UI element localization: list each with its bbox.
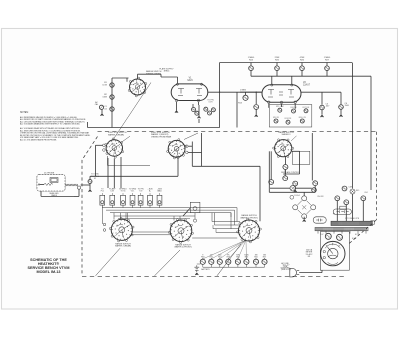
svg-text:3.3M: 3.3M [102, 96, 107, 98]
rotary switch range wafer mid [170, 220, 192, 242]
wire mid bus y127 [88, 127, 220, 129]
transformer jack box [190, 202, 200, 212]
resistor R42 [337, 234, 343, 240]
terminal TS6 [148, 195, 153, 205]
wire x312 vertical [311, 133, 313, 181]
wire lamp left [270, 187, 290, 189]
resistor R33 with ground [293, 181, 298, 186]
svg-text:V1: V1 [94, 178, 96, 180]
fold line A [96, 248, 121, 275]
wire SWA to SWB lower [131, 234, 171, 236]
fold line B [155, 250, 181, 276]
ground bridge [303, 217, 305, 220]
svg-text:ALL DC VOLTAGES TAKEN FROM: ALL DC VOLTAGES TAKEN FROM PROBE. [20, 138, 57, 141]
wire top B+ bus [220, 62, 353, 64]
svg-text:1 MEG: 1 MEG [240, 89, 247, 91]
bridge rectifier D1-D4 [302, 196, 307, 201]
capacitor C5 .047 [321, 92, 323, 104]
pilot lamp PL1 [290, 185, 296, 191]
electrolytic capacitor C10 [290, 268, 297, 277]
wire transformer feeds [336, 201, 338, 221]
label leader S1B [184, 133, 198, 140]
wire S3 right [292, 150, 300, 152]
pin 2 [175, 99, 178, 102]
rectifier circle B [344, 200, 349, 205]
potentiometer near bridge [290, 195, 294, 199]
wire V1 grid left [161, 76, 178, 78]
rotary switch S2 range wafer [130, 79, 146, 95]
wire battery link [197, 263, 201, 265]
wire SWC staircase 2 [215, 224, 240, 226]
capacitor C6 1500 [340, 92, 342, 104]
wire bus to SWA 3 [127, 213, 129, 222]
wire strip left down [101, 205, 103, 224]
svg-text:WAFER 2 (FRONT): WAFER 2 (FRONT) [174, 246, 192, 249]
wire SWC staircase 1 [212, 221, 240, 223]
wire top bus left drop [219, 63, 221, 128]
fuse F1 holder [313, 217, 326, 223]
wire plug cord to meter box [299, 272, 322, 274]
wire stub x199 down [198, 119, 200, 123]
svg-text:(RED): (RED) [164, 71, 170, 73]
svg-text:ALL VOLTAGES MEASURED WITH: ALL VOLTAGES MEASURED WITH RESPECT TO CH… [20, 123, 81, 126]
ground left chain [101, 109, 103, 113]
probe assembly dashed enclosure [37, 175, 65, 192]
terminal TS5 [138, 195, 143, 205]
wire S1A bottom drop [107, 158, 109, 188]
terminal TS1 [100, 195, 105, 205]
wire B+ vertical right x371 [370, 76, 372, 190]
terminal circles S1B right [186, 145, 189, 148]
terminal circles SWA left [103, 223, 106, 226]
wire bus to SWA [113, 213, 115, 220]
pin 7 [200, 83, 202, 85]
wire second bus y76 [251, 75, 371, 77]
svg-text:12AU7: 12AU7 [303, 84, 311, 87]
wire strip bus 1 [102, 207, 237, 209]
wire input up [89, 176, 91, 179]
transformer T1 primary winding [331, 221, 373, 225]
wire S1A bottom bus [108, 165, 151, 167]
wire probe bus to S1B [90, 175, 178, 177]
svg-text:7 V2: 7 V2 [139, 191, 143, 193]
resistor R31 [269, 180, 274, 185]
svg-text:6AL5: 6AL5 [187, 79, 193, 82]
label leader S3 [291, 136, 297, 141]
shield box upper right [292, 151, 310, 164]
wire bridge top [303, 192, 305, 195]
resistor R37 [312, 188, 317, 193]
potentiometer R13 DC BAL [240, 91, 262, 93]
resistor R34 [313, 181, 318, 186]
svg-text:R45: R45 [356, 190, 359, 192]
wire S1B to right [188, 151, 201, 153]
wire left chain vertical [111, 78, 113, 120]
ground probe input [89, 184, 91, 190]
wire S1A left links [96, 144, 103, 146]
terminal TS3 [121, 195, 126, 205]
wire S1B bottom drop [177, 159, 179, 177]
svg-text:(SEE NOTE): (SEE NOTE) [281, 269, 291, 271]
shielded cable [65, 184, 78, 186]
pin 1 [176, 83, 178, 85]
svg-text:D1-D4: D1-D4 [294, 195, 299, 197]
wire x201 down [201, 133, 203, 166]
wire probe tip [40, 184, 45, 186]
rotary switch S1A function rear wafer [106, 140, 122, 156]
meter M1 [321, 241, 345, 265]
wire SWA to SWB upper [132, 231, 171, 233]
resistor R38 [342, 186, 347, 191]
pin 8 [280, 101, 283, 104]
svg-text:BATTERY: BATTERY [201, 268, 210, 271]
svg-text:6 V3: 6 V3 [209, 102, 213, 104]
svg-text:CAL: CAL [95, 103, 99, 106]
svg-text:VIEWED FROM REAR: VIEWED FROM REAR [151, 135, 172, 138]
svg-text:ZERO ADJ CONTROL: ZERO ADJ CONTROL [281, 171, 300, 174]
svg-text:V2 1: V2 1 [131, 191, 135, 193]
meter terminals [323, 250, 325, 252]
meter enclosure box [320, 232, 349, 271]
terminal TS7 [157, 195, 162, 205]
pin 3 [268, 101, 271, 104]
wire y216 horizontal [114, 215, 195, 217]
rotary switch S1 range rear wafer [111, 219, 132, 240]
wire SWB to SWC [192, 237, 237, 239]
wire chain top link [112, 77, 129, 79]
pin 5 [197, 99, 200, 102]
wire S2 to V1 [137, 74, 139, 79]
wire V2 plate drops [271, 76, 273, 84]
wire V1 plate to V2 grid [208, 91, 262, 93]
svg-text:10 M: 10 M [102, 84, 107, 86]
resistor R4 input [88, 180, 92, 184]
wire fan from SWC [203, 240, 246, 259]
component cluster box below V2 [269, 105, 312, 127]
wire chain bottom [111, 120, 113, 128]
wire V2 cathode drops [268, 104, 270, 108]
svg-text:6.3 V: 6.3 V [352, 238, 357, 240]
label leader S1A [121, 136, 130, 142]
tube V1 6AL5 [171, 84, 208, 101]
wire x237 drop [236, 92, 238, 127]
resistor R41 [325, 233, 331, 239]
wire resistor row bus [203, 266, 265, 268]
wire S1B upper right [188, 145, 192, 147]
wire y166 right [192, 165, 260, 167]
wire y218.6 horizontal [118, 218, 190, 220]
wire x260 down [259, 166, 261, 221]
wire strip bus 3 [110, 212, 231, 214]
potentiometer R30 zero adj [284, 157, 286, 165]
wire to SWB [173, 216, 175, 221]
wire S3 pot down [284, 170, 286, 175]
svg-text:WAFER 2 (REAR): WAFER 2 (REAR) [115, 245, 131, 248]
svg-text:B+: B+ [149, 191, 151, 193]
svg-text:DC PROBE: DC PROBE [44, 172, 55, 174]
wire lower S3 links [268, 151, 270, 192]
wire probe into chassis [81, 184, 90, 186]
svg-text:PL1: PL1 [101, 191, 104, 193]
capacitor C2 cluster below V1 [198, 102, 200, 105]
pin 5 [294, 101, 297, 104]
wire lamp to column [296, 187, 312, 189]
svg-text:TO S1: TO S1 [120, 191, 125, 193]
pin 6 [271, 84, 273, 86]
fold line C [217, 244, 241, 276]
svg-text:TO GRID: TO GRID [91, 174, 99, 176]
svg-text:.047: .047 [326, 106, 330, 108]
wire bus drops to switches [230, 213, 232, 217]
resistor R32 [283, 176, 288, 181]
pin 1 [291, 84, 293, 86]
wire strip bus 2 [106, 209, 235, 211]
chassis bottom boundary dashed [82, 275, 345, 277]
battery B1 [194, 265, 199, 272]
svg-text:WAFER 3: WAFER 3 [282, 133, 292, 136]
transformer T1 secondary winding [315, 227, 368, 230]
terminal TS2 [110, 195, 115, 205]
svg-text:M1: M1 [308, 256, 311, 258]
wire S1A drop2 [113, 158, 115, 188]
svg-text:MODEL IM-13: MODEL IM-13 [37, 270, 61, 274]
tube V2 12AU7 [262, 85, 301, 103]
svg-text:ON-OFF: ON-OFF [317, 196, 324, 198]
connector J1 [77, 186, 80, 189]
terminal TS4 [130, 195, 135, 205]
resistor R40 [340, 206, 346, 209]
ground V1 cathode [176, 102, 178, 111]
transformer small terminal box [371, 221, 375, 224]
rotary switch S1B function front wafer [168, 140, 185, 157]
rotary switch S3 [275, 140, 292, 157]
resistor R101 1 MEG probe [50, 178, 58, 183]
wire strip to box [183, 208, 190, 216]
wire V2 plate right [301, 91, 341, 93]
jack stub terminal [194, 213, 196, 219]
ground battery [195, 273, 198, 275]
wire bus to SWA 2 [120, 213, 122, 219]
svg-text:WAFER 1 (REAR): WAFER 1 (REAR) [108, 133, 124, 136]
rectifier tube heater circle A [335, 196, 340, 201]
potentiometer AC CAL [99, 105, 103, 109]
svg-text:.02: .02 [104, 108, 107, 110]
chassis shield boundary dashed [82, 137, 98, 161]
rectifier circle C [361, 196, 366, 201]
svg-text:6X4: 6X4 [365, 192, 368, 194]
switch box on range switch [333, 209, 351, 214]
wire B+ vertical right x352 [352, 63, 354, 189]
wire SWC staircase 3 [213, 228, 239, 230]
switch linkage leader [113, 83, 151, 141]
secondary taps [317, 231, 319, 234]
wire S1A drop3 [120, 157, 122, 188]
resistor R3 cluster below V1 [192, 104, 194, 107]
rotary switch range front wafer [239, 220, 260, 241]
wire y217 vertical [125, 213, 127, 220]
terminal circles S1A left [103, 144, 106, 147]
wire probe shield return [40, 191, 42, 196]
wire SWC staircase 4 [216, 232, 239, 234]
wire chain to S2 [126, 78, 128, 82]
svg-text:6.3 V: 6.3 V [355, 234, 360, 236]
ground below V1 cluster [198, 105, 200, 116]
capacitor C4 with ground [255, 92, 257, 104]
wire B+ junction circle [350, 189, 355, 194]
svg-text:NOTES:: NOTES: [20, 112, 29, 114]
svg-text:WAFER 1 (FRONT): WAFER 1 (FRONT) [240, 216, 258, 219]
